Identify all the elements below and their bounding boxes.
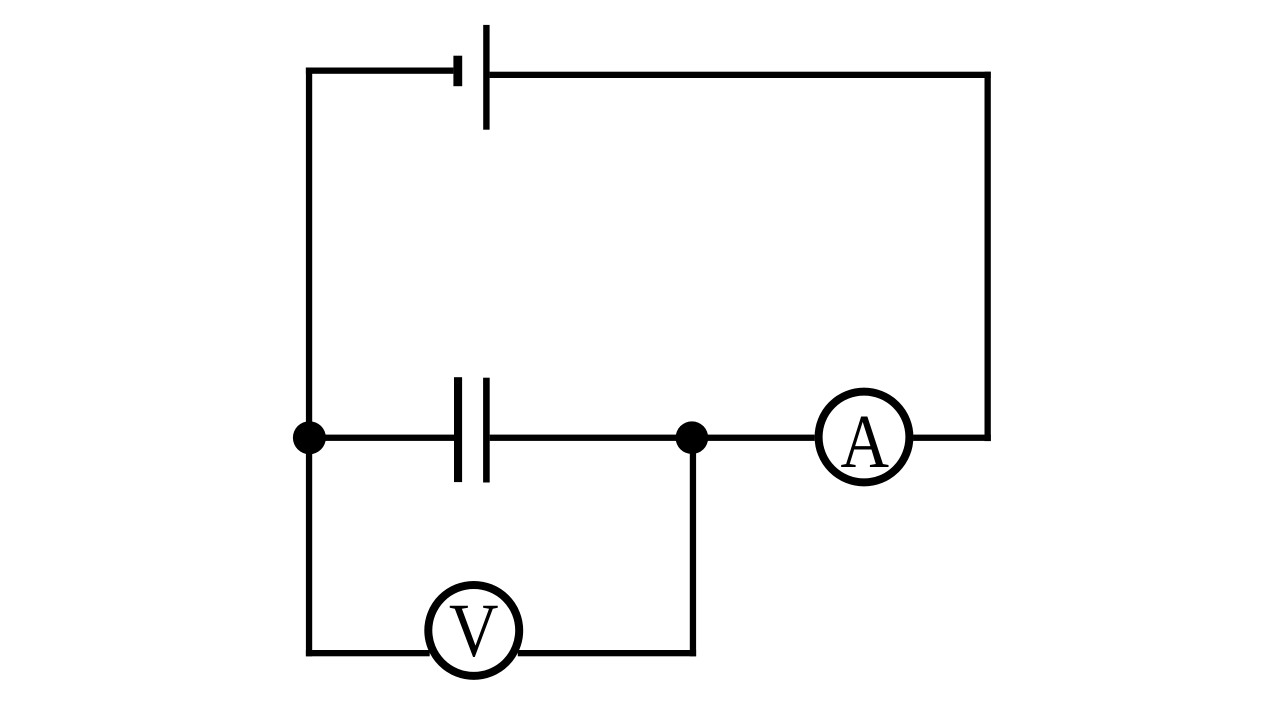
voltmeter M2: circle (428, 585, 519, 676)
wire: middle horizontal, node A to capacitor left plate (306, 435, 454, 441)
wire: bottom horizontal, voltmeter to vertical drop (518, 650, 696, 656)
battery B1: long positive plate (483, 25, 489, 130)
wire: bottom horizontal, left corner to voltmeter (306, 650, 430, 656)
svg-text:A: A (840, 399, 889, 484)
ammeter M1: circle (819, 392, 910, 483)
wire: vertical drop from middle junction to bottom wire (690, 438, 696, 657)
wire: top-left horizontal (corner to battery short plate) (306, 68, 454, 74)
wire: right vertical (top-right corner down to ammeter branch) (985, 72, 991, 441)
wire: middle horizontal, ammeter to right vertical (913, 435, 991, 441)
wire: left vertical (top-left corner down to bottom-left corner) (306, 68, 312, 657)
capacitor C1: right plate (483, 378, 490, 483)
node: junction dot left (293, 421, 326, 454)
capacitor C1: left plate (454, 377, 462, 482)
wire: middle horizontal, capacitor to ammeter (490, 435, 815, 441)
wire: top-right horizontal (battery to right vertical) (490, 72, 991, 78)
node: junction dot middle (676, 421, 709, 454)
svg-text:V: V (449, 588, 499, 673)
battery B1: short negative plate (453, 56, 462, 86)
